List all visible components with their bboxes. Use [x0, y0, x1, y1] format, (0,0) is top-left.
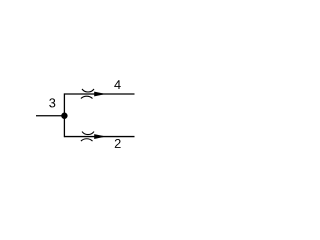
flow arrow (top branch): [94, 92, 106, 97]
restrictor lower arc (bottom branch): [81, 139, 93, 141]
restrictor upper arc (top branch): [82, 89, 94, 92]
restrictor lower arc (top branch): [81, 96, 93, 98]
port label 2: [115, 139, 121, 148]
wire: bottom branch to port 2: [64, 136, 134, 138]
restrictor upper arc (bottom branch): [82, 132, 94, 135]
wire: left inlet from port 3: [36, 115, 64, 117]
junction node: [61, 113, 67, 119]
port label 3: [49, 98, 55, 107]
port label 4: [114, 80, 120, 89]
wire: vertical branch riser: [63, 93, 65, 137]
flow arrow (bottom branch): [94, 134, 106, 139]
wire: top branch to port 4: [64, 93, 134, 95]
